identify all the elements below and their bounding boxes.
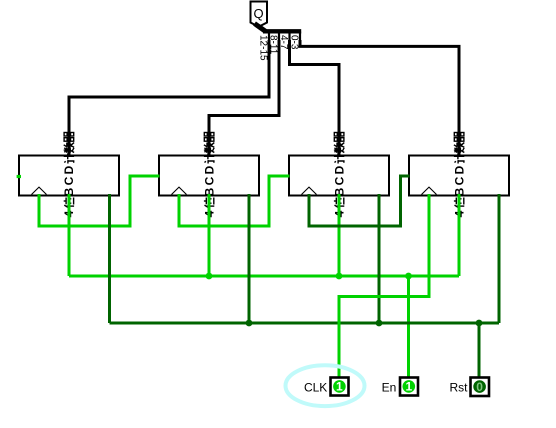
wire U1 clock chain to U2 xyxy=(39,176,160,226)
junction En rail / U3 xyxy=(336,273,343,280)
unconnected carry pin stub on U1 xyxy=(17,175,21,178)
svg-text:Q: Q xyxy=(254,6,264,21)
wire Rst input riser xyxy=(478,323,481,381)
wire Rst rail xyxy=(110,322,500,325)
junction Rst rail / U3 xyxy=(376,320,383,327)
svg-text:Rst: Rst xyxy=(450,381,469,395)
junction Rst rail / U2 xyxy=(246,320,253,327)
svg-text:0: 0 xyxy=(476,380,483,394)
wire bus 0-3 to counter U4 xyxy=(300,40,459,156)
input pin Rst xyxy=(450,378,490,397)
input pin CLK xyxy=(304,378,349,396)
counter U1 label xyxy=(62,132,76,218)
wire U1 En down xyxy=(68,194,71,276)
svg-text:CLK: CLK xyxy=(304,381,327,395)
selection halo around CLK xyxy=(286,365,365,406)
wire U2 Rst down xyxy=(248,194,251,323)
counter U2 xyxy=(159,156,259,196)
wire CLK input to U4 clock xyxy=(339,194,429,381)
wire bus 12-15 to counter U1 xyxy=(69,40,269,156)
svg-text:1: 1 xyxy=(405,380,412,394)
svg-text:En: En xyxy=(382,380,397,394)
input pin En xyxy=(382,378,418,396)
counter U1 xyxy=(19,156,119,196)
counter U4 label xyxy=(452,132,466,218)
junction En rail / En input xyxy=(405,273,412,280)
wire bus 4-7 to counter U3 xyxy=(290,40,340,156)
counter U3 label xyxy=(332,132,346,218)
wire U3 clock chain to U4 (dark, value 0) xyxy=(309,176,410,226)
junction Rst rail / Rst input xyxy=(476,320,483,327)
wire En rail xyxy=(69,275,459,278)
wire U3 Rst down xyxy=(378,194,381,323)
wire U1 Rst down xyxy=(108,194,111,323)
splitter S1 (16-bit to 4x4) xyxy=(255,24,302,42)
counter U3 xyxy=(289,156,389,196)
wire U4 En down xyxy=(458,194,461,276)
counter U4 xyxy=(409,156,509,196)
wire U3 En down xyxy=(338,194,341,276)
counter U2 label xyxy=(202,132,216,218)
svg-text:1: 1 xyxy=(336,380,343,394)
junction En rail / U2 xyxy=(206,273,213,280)
svg-text:12-15: 12-15 xyxy=(258,35,269,61)
wire U4 Rst down xyxy=(498,194,501,323)
output pin Q xyxy=(251,2,268,27)
wire U2 clock chain to U3 xyxy=(179,176,290,226)
wire bus 8-11 to counter U2 xyxy=(209,40,279,156)
wire En input riser xyxy=(407,276,410,381)
wire U2 En down xyxy=(208,194,211,276)
